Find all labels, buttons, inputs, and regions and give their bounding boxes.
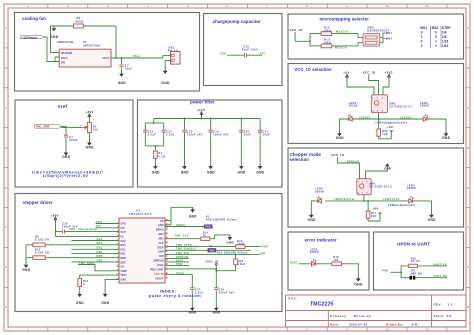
wire VREF bend bbox=[78, 265, 119, 271]
svg-text:OA1: OA1 bbox=[120, 248, 126, 251]
svg-text:MS2: MS2 bbox=[158, 233, 164, 236]
svg-text:1: 1 bbox=[421, 44, 423, 48]
svg-text:MS1: MS1 bbox=[386, 31, 393, 35]
svg-text:GND: GND bbox=[308, 218, 316, 222]
wire VCC_IO to resistors bbox=[295, 32, 321, 46]
svg-text:PAD SQUARE 4x2mm: PAD SQUARE 4x2mm bbox=[217, 251, 249, 254]
svg-text:GND: GND bbox=[118, 81, 127, 85]
svg-text:0: 0 bbox=[435, 31, 437, 35]
svg-text:D: D bbox=[467, 146, 469, 150]
svg-text:BRA: BRA bbox=[120, 244, 126, 247]
ground GND2 (below C7) bbox=[118, 72, 127, 86]
U2 left pin names bbox=[120, 223, 127, 282]
chip U2 body bbox=[119, 218, 165, 283]
wire chopper LED rail right bbox=[364, 201, 432, 213]
svg-text:GND: GND bbox=[336, 136, 344, 140]
svg-text:10K: 10K bbox=[382, 132, 388, 136]
svg-text:GND: GND bbox=[62, 155, 70, 159]
svg-text:MS1Ctrl: MS1Ctrl bbox=[336, 29, 348, 33]
svg-text:UART-TX: UART-TX bbox=[433, 262, 447, 266]
wire +24V to rail bbox=[200, 117, 202, 119]
svg-text:PDN: PDN bbox=[382, 268, 389, 272]
section box: microstepping selector bbox=[288, 14, 464, 59]
junction dots VCC_IO rail bbox=[215, 268, 217, 270]
wire +5V to SW2 bbox=[347, 79, 374, 95]
sense resistor R15 bbox=[33, 256, 45, 260]
junction dot PDN bbox=[400, 271, 402, 273]
svg-text:A: A bbox=[467, 26, 469, 30]
svg-text:BRB: BRB bbox=[120, 257, 126, 260]
junction dot VCC_IO split bbox=[309, 40, 311, 42]
svg-text:GND: GND bbox=[86, 146, 94, 150]
svg-text:selection: selection bbox=[290, 157, 310, 162]
capacitor C24 bbox=[214, 288, 218, 290]
svg-text:G: G bbox=[5, 265, 7, 269]
ground GND14 (below C20) bbox=[238, 164, 246, 174]
svg-text:UPDN to UART: UPDN to UART bbox=[397, 242, 430, 247]
wire JP1 to UART-RX bbox=[415, 277, 447, 279]
svg-text:ADJ/GND: ADJ/GND bbox=[61, 51, 73, 55]
svg-text:TMC_VREF: TMC_VREF bbox=[79, 262, 95, 265]
svg-text:VREF: VREF bbox=[120, 270, 127, 273]
table MS1/MS2/STEP bbox=[420, 26, 451, 48]
svg-text:OA1: OA1 bbox=[97, 247, 103, 250]
switch SW3 body bbox=[363, 34, 380, 47]
wire TEST to R11 bbox=[80, 275, 119, 278]
svg-text:VOUT: VOUT bbox=[61, 56, 69, 60]
svg-text:GND: GND bbox=[101, 301, 109, 305]
svg-text:E: E bbox=[5, 186, 7, 190]
svg-text:cooling fan: cooling fan bbox=[22, 16, 46, 21]
wire CPO stub bbox=[96, 223, 120, 225]
svg-text:STEP: STEP bbox=[157, 246, 164, 249]
wire BRA row bbox=[26, 244, 119, 246]
ground GND12 (below C19) bbox=[181, 164, 189, 174]
wire to R17 bbox=[367, 201, 369, 211]
ground GND6 (top, inverted) bbox=[384, 163, 392, 170]
wire R4 bottom bbox=[88, 133, 90, 141]
U2 left pin numbers bbox=[117, 222, 119, 280]
svg-text:2022-07-03: 2022-07-03 bbox=[349, 322, 368, 326]
wire chopper LED rail left bbox=[311, 201, 364, 213]
svg-text:Sheet:: Sheet: bbox=[434, 314, 445, 318]
junction dot C4 tap bbox=[65, 126, 67, 128]
svg-text:pulse every 4 rotation: pulse every 4 rotation bbox=[149, 293, 201, 298]
ground GND18 (chip gnd) bbox=[101, 292, 109, 305]
svg-text:GND: GND bbox=[189, 215, 197, 219]
svg-text:MS2: MS2 bbox=[386, 37, 393, 41]
svg-text:STEP: STEP bbox=[442, 26, 451, 30]
wire ADJ pin bbox=[51, 26, 60, 53]
svg-text:CPO: CPO bbox=[120, 223, 125, 226]
svg-text:GND: GND bbox=[22, 268, 30, 272]
svg-text:Company:: Company: bbox=[330, 314, 347, 318]
svg-text:BRB: BRB bbox=[97, 255, 103, 258]
ground GND20 (R14) bbox=[226, 235, 234, 245]
svg-text:SS-22SD-02-L3: SS-22SD-02-L3 bbox=[389, 104, 412, 108]
svg-text:SS-22SD-02-L3: SS-22SD-02-L3 bbox=[369, 185, 392, 189]
wire DIAG to LED bbox=[299, 264, 359, 276]
svg-text:DIR: DIR bbox=[260, 251, 266, 255]
svg-text:2800K: 2800K bbox=[310, 250, 319, 254]
svg-text:10kΩ: 10kΩ bbox=[237, 243, 245, 246]
svg-text:INDEX: INDEX bbox=[156, 229, 164, 232]
svg-text:OA2: OA2 bbox=[97, 238, 103, 241]
LED LED6 bbox=[423, 115, 428, 121]
svg-text:GND: GND bbox=[442, 136, 450, 140]
svg-text:GND: GND bbox=[152, 170, 160, 174]
svg-text:10uF: 10uF bbox=[244, 133, 251, 137]
wire PDN split bbox=[391, 266, 410, 278]
svg-text:VCC_IO: VCC_IO bbox=[363, 71, 376, 75]
svg-text:0.15Ω 1W: 0.15Ω 1W bbox=[35, 250, 50, 254]
svg-text:2800K: 2800K bbox=[407, 186, 416, 190]
wire TMC_VREF to pot wiper bbox=[61, 126, 83, 127]
ground GND13 (below C18) bbox=[207, 164, 215, 174]
svg-text:DIR: DIR bbox=[159, 255, 164, 258]
svg-text:1/Sqrt(2)*Vref/2.5V: 1/Sqrt(2)*Vref/2.5V bbox=[42, 173, 88, 178]
wire BRB row bbox=[26, 257, 119, 259]
sense resistor R6 bbox=[33, 243, 45, 247]
section box: power filter bbox=[138, 100, 283, 187]
wire SW2 common to LED rail bbox=[378, 113, 380, 119]
svg-text:5Vout: 5Vout bbox=[176, 272, 184, 275]
svg-text:Date:: Date: bbox=[330, 322, 339, 326]
svg-text:10kΩ: 10kΩ bbox=[238, 263, 246, 266]
svg-text:OB1: OB1 bbox=[97, 251, 103, 254]
svg-text:EP: EP bbox=[160, 220, 164, 223]
svg-text:1: 1 bbox=[421, 35, 423, 39]
regulator U1 body bbox=[59, 49, 111, 67]
ground GND7 (chopper left) bbox=[308, 213, 316, 222]
svg-text:LEDworkIndicator: LEDworkIndicator bbox=[388, 203, 416, 207]
svg-text:5VOUT: 5VOUT bbox=[155, 277, 164, 280]
ground GND8 (chopper right) bbox=[428, 213, 436, 222]
svg-text:GND: GND bbox=[238, 170, 246, 174]
wire CPI stub bbox=[96, 227, 120, 229]
svg-text:22nF 100V: 22nF 100V bbox=[242, 48, 258, 52]
svg-text:TMC_ENABLE: TMC_ENABLE bbox=[176, 248, 196, 251]
wire R19 to UART-TX bbox=[418, 265, 448, 267]
svg-text:10uF: 10uF bbox=[263, 133, 270, 137]
ground GND15 (below C21) bbox=[256, 164, 264, 174]
jumper JP1 bbox=[410, 276, 416, 280]
svg-text:VCC_IO: VCC_IO bbox=[154, 273, 163, 276]
svg-text:1: 1 bbox=[435, 40, 437, 44]
junction dots loop bbox=[153, 122, 155, 124]
wire CLK row through R14 bbox=[165, 235, 230, 239]
wire OA1 row bbox=[71, 248, 119, 250]
svg-text:GND: GND bbox=[50, 35, 59, 39]
svg-text:LED3V3: LED3V3 bbox=[400, 115, 412, 119]
section box: chargepump capacitor bbox=[204, 14, 283, 86]
wire VCC_IO pin to rail bbox=[165, 265, 216, 287]
resistor R1 bbox=[154, 151, 158, 158]
pad P1 bbox=[202, 225, 213, 229]
resistor R12 bbox=[321, 32, 332, 36]
wire STEP row bbox=[165, 246, 260, 248]
svg-text:GND: GND bbox=[384, 166, 392, 170]
wire EP GND to symbol bbox=[165, 207, 193, 225]
wire OB1 row bbox=[71, 253, 119, 255]
svg-text:26: 26 bbox=[166, 228, 168, 230]
U2 left pin stubs bbox=[117, 224, 120, 280]
svg-text:VCC_IO: VCC_IO bbox=[206, 260, 219, 264]
junction dots on VOUT net bbox=[115, 57, 117, 59]
svg-text:100nF 50V: 100nF 50V bbox=[219, 291, 235, 295]
svg-text:OB2: OB2 bbox=[120, 261, 126, 264]
svg-text:C: C bbox=[467, 106, 469, 110]
wire R1 to ground bbox=[154, 158, 156, 164]
svg-text:BRA: BRA bbox=[97, 242, 103, 245]
ground GND11 (below R1) bbox=[152, 164, 160, 174]
svg-text:3: 3 bbox=[117, 231, 118, 233]
junction dots on rail bbox=[184, 118, 186, 120]
svg-text:10kΩ: 10kΩ bbox=[323, 41, 331, 45]
svg-text:0.1Ω: 0.1Ω bbox=[158, 154, 165, 158]
svg-text:+24V: +24V bbox=[197, 108, 205, 112]
svg-text:10k: 10k bbox=[93, 128, 99, 132]
svg-text:CLK: CLK bbox=[158, 242, 163, 245]
svg-text:10uF: 10uF bbox=[125, 67, 133, 71]
svg-text:VIN: VIN bbox=[61, 61, 65, 65]
svg-text:LEDvoltageIndicator: LEDvoltageIndicator bbox=[376, 120, 408, 124]
svg-text:GND: GND bbox=[256, 170, 264, 174]
svg-text:+12Vinput: +12Vinput bbox=[21, 35, 37, 39]
junction dot LED rail bbox=[378, 118, 380, 120]
ground GND16 (sense) bbox=[22, 263, 30, 273]
wire INDEX row to pad P1 bbox=[165, 226, 204, 228]
svg-text:B: B bbox=[467, 66, 469, 70]
svg-text:PDN_UART: PDN_UART bbox=[150, 268, 164, 271]
resistor R20 bbox=[377, 129, 381, 136]
svg-text:GND: GND bbox=[161, 81, 170, 85]
svg-text:TMC2225: TMC2225 bbox=[310, 302, 333, 308]
wire PDN stub bbox=[165, 264, 189, 266]
svg-text:PAD SQUARE 4x2mm: PAD SQUARE 4x2mm bbox=[206, 218, 238, 221]
capacitor C22 bbox=[162, 130, 166, 132]
svg-text:MS1: MS1 bbox=[420, 26, 427, 30]
svg-text:PDN: PDN bbox=[176, 263, 182, 266]
svg-text:CPO: CPO bbox=[220, 52, 227, 56]
svg-text:LEDSTEALTH: LEDSTEALTH bbox=[334, 197, 354, 201]
svg-text:CPI: CPI bbox=[120, 227, 124, 230]
U2 right pin names bbox=[150, 220, 164, 280]
svg-text:CPO: CPO bbox=[96, 221, 102, 224]
svg-text:VS: VS bbox=[120, 266, 124, 269]
wire R11 to ground bbox=[79, 287, 81, 292]
svg-text:AMS1117-PB: AMS1117-PB bbox=[57, 40, 73, 44]
svg-text:SPREAD: SPREAD bbox=[153, 260, 164, 263]
wire +24V down to VS bbox=[56, 222, 120, 236]
svg-text:VS: VS bbox=[120, 236, 124, 239]
U1 pin names bbox=[61, 51, 110, 65]
svg-text:0: 0 bbox=[83, 282, 85, 286]
svg-text:VCC_IO: VCC_IO bbox=[331, 153, 344, 157]
svg-text:B: B bbox=[5, 66, 7, 70]
U1 field labels bbox=[57, 40, 101, 47]
svg-text:TMC_VREF: TMC_VREF bbox=[36, 125, 51, 129]
resistor R18 bbox=[332, 262, 342, 266]
wire +12V to VIN bbox=[43, 37, 59, 62]
resistor R13 bbox=[321, 44, 332, 48]
svg-text:SPREAD: SPREAD bbox=[347, 160, 360, 164]
svg-text:H: H bbox=[467, 305, 469, 309]
svg-text:GND: GND bbox=[158, 224, 164, 227]
LED LED5 bbox=[409, 197, 414, 203]
ground GND22 (below C24) bbox=[213, 306, 221, 315]
ground GND3 (below CN3) bbox=[161, 69, 170, 86]
LED LED4 bbox=[318, 197, 322, 203]
svg-text:PAD: PAD bbox=[206, 225, 211, 229]
wire +3V3 to R4 bbox=[88, 119, 90, 123]
svg-text:TMC2225-SA-T: TMC2225-SA-T bbox=[129, 212, 152, 216]
wire sense common to ground bbox=[25, 245, 27, 263]
svg-text:3D-cnc.de: 3D-cnc.de bbox=[354, 314, 371, 318]
svg-text:JMP_NC: JMP_NC bbox=[410, 272, 422, 275]
capacitor C18 branch bbox=[210, 119, 212, 131]
wire SW3 to MS1 bbox=[380, 33, 385, 38]
global label +12Vinput bbox=[21, 35, 44, 39]
svg-text:25: 25 bbox=[166, 233, 168, 235]
capacitor C19 branch bbox=[184, 119, 186, 131]
section box: cooling fan bbox=[15, 13, 200, 92]
wire OB2 row bbox=[71, 261, 119, 263]
svg-text:LED5V1: LED5V1 bbox=[359, 115, 371, 119]
svg-text:GND: GND bbox=[76, 301, 84, 305]
svg-text:2.2uF: 2.2uF bbox=[166, 133, 175, 137]
svg-text:microstepping selector: microstepping selector bbox=[320, 16, 370, 21]
svg-text:CPI: CPI bbox=[96, 225, 101, 228]
wire VCC_IO to SW1 bbox=[337, 157, 359, 179]
svg-text:A: A bbox=[5, 26, 7, 30]
title block frame bbox=[286, 295, 467, 327]
svg-text:0: 0 bbox=[435, 35, 437, 39]
svg-text:GND: GND bbox=[120, 279, 126, 282]
section box: error indicator bbox=[288, 232, 369, 290]
svg-text:1/4: 1/4 bbox=[442, 31, 447, 35]
LED LED3 bbox=[348, 115, 352, 121]
svg-text:0Ω 1%: 0Ω 1% bbox=[411, 260, 421, 263]
ground GND5 (right LED) bbox=[442, 131, 450, 140]
wire OA2 row bbox=[71, 240, 119, 242]
wire C23/C22 loop bbox=[145, 119, 163, 152]
ground GND10 (below C4) bbox=[62, 150, 70, 159]
section box: stepper driver bbox=[15, 194, 282, 312]
svg-text:SSP1117 ADJ: SSP1117 ADJ bbox=[83, 43, 101, 47]
resistor R14 bbox=[201, 237, 210, 241]
svg-text:OB2: OB2 bbox=[97, 259, 103, 262]
svg-text:stepper driver: stepper driver bbox=[23, 200, 53, 205]
svg-text:15: 15 bbox=[166, 277, 168, 279]
svg-text:+3V3: +3V3 bbox=[384, 70, 392, 74]
svg-text:LEDCYCLE: LEDCYCLE bbox=[383, 197, 400, 201]
junction dot chargepump tap bbox=[55, 231, 57, 233]
svg-text:2800K: 2800K bbox=[420, 104, 429, 108]
svg-text:N.B: N.B bbox=[412, 322, 418, 326]
svg-text:G: G bbox=[467, 265, 469, 269]
svg-text:CPI: CPI bbox=[260, 52, 265, 56]
svg-text:TMC_DIR: TMC_DIR bbox=[176, 252, 189, 255]
svg-text:2.2uF: 2.2uF bbox=[148, 133, 157, 137]
connector CN3 body bbox=[171, 52, 181, 65]
U2 right pin stubs bbox=[165, 221, 168, 279]
potentiometer R4 bbox=[87, 122, 91, 132]
svg-text:OA2: OA2 bbox=[120, 240, 126, 243]
wire MS1Ctrl bbox=[332, 34, 363, 38]
svg-text:1: 1 bbox=[435, 44, 437, 48]
svg-text:TMC_STEP: TMC_STEP bbox=[176, 244, 192, 247]
svg-text:GND: GND bbox=[354, 282, 363, 286]
wire DIR row bbox=[165, 254, 260, 256]
U2 right pin numbers bbox=[166, 219, 168, 278]
svg-text:GND: GND bbox=[226, 241, 234, 245]
wire R16 to VCC_IO rail bbox=[216, 265, 235, 271]
svg-text:10kΩ: 10kΩ bbox=[323, 28, 331, 32]
svg-text:UART-RX: UART-RX bbox=[433, 274, 447, 278]
wire LED rail left bbox=[340, 119, 379, 131]
resistor R2 bbox=[74, 24, 84, 28]
svg-text:chargepump capacitor: chargepump capacitor bbox=[213, 19, 261, 24]
wire CN3 pin2 to ground bbox=[165, 60, 170, 68]
wire chargepump C16 bbox=[56, 231, 120, 233]
svg-text:TEST: TEST bbox=[120, 274, 127, 277]
svg-text:GND: GND bbox=[181, 170, 189, 174]
capacitor C20 branch bbox=[240, 119, 242, 131]
svg-text:2/5: 2/5 bbox=[447, 314, 452, 318]
junction dot R16 tap bbox=[235, 254, 237, 256]
svg-text:1/16: 1/16 bbox=[442, 40, 449, 44]
svg-text:GND: GND bbox=[428, 218, 436, 222]
wire SW3 to MS2 bbox=[380, 39, 385, 43]
ground GND19 (EP, above) bbox=[189, 207, 197, 218]
svg-text:GND: GND bbox=[207, 170, 215, 174]
switch SW1 body bbox=[357, 179, 371, 195]
svg-text:MS2: MS2 bbox=[432, 26, 439, 30]
wire SW1 common to LED rail bbox=[363, 195, 365, 201]
svg-text:+24V: +24V bbox=[51, 213, 59, 217]
svg-text:H: H bbox=[5, 305, 7, 309]
svg-text:0.15Ω 1W: 0.15Ω 1W bbox=[35, 237, 50, 241]
LED LED8 bbox=[312, 260, 317, 266]
section box: Chopper mode selection bbox=[288, 148, 464, 227]
capacitor C23 bbox=[143, 130, 147, 132]
svg-text:MS2Ctrl: MS2Ctrl bbox=[335, 46, 347, 50]
wire SW1 to ground bbox=[366, 166, 388, 178]
svg-text:INDEX: INDEX bbox=[176, 224, 185, 227]
svg-text:TMC_CLK: TMC_CLK bbox=[175, 234, 189, 237]
svg-text:23: 23 bbox=[166, 241, 168, 243]
svg-text:800Ω: 800Ω bbox=[76, 19, 85, 23]
ground GND21 (below C17) bbox=[189, 306, 197, 315]
wire +3V3 to SW2 bbox=[383, 79, 389, 95]
svg-text:Drawn By:: Drawn By: bbox=[386, 322, 404, 326]
capacitor C16 (chargepump) bbox=[244, 53, 246, 57]
svg-text:4: 4 bbox=[117, 234, 118, 237]
resistor R11 bbox=[78, 278, 82, 286]
section box: Vref bbox=[15, 100, 133, 187]
resistor R17 bbox=[366, 211, 370, 218]
svg-text:E: E bbox=[467, 186, 469, 190]
section box: UPDN to UART bbox=[374, 232, 464, 290]
capacitor C16 stepper bbox=[62, 229, 64, 233]
svg-text:VCC_IO: VCC_IO bbox=[289, 28, 302, 32]
capacitor C17 bbox=[190, 288, 194, 290]
svg-text:0: 0 bbox=[421, 31, 423, 35]
resistor R19 bbox=[409, 264, 418, 267]
svg-text:10K: 10K bbox=[371, 214, 377, 218]
wire chip GND pin down bbox=[105, 279, 119, 291]
